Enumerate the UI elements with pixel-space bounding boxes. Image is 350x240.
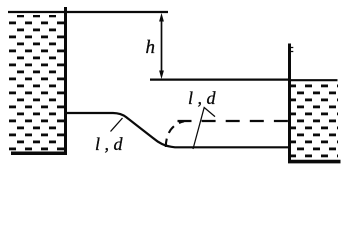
svg-text:l , d: l , d <box>95 134 124 154</box>
right reservoir bottom <box>288 160 341 164</box>
leader line for label l,d (pipe 1) <box>111 118 123 132</box>
right reservoir water surface line <box>291 79 338 81</box>
left reservoir right wall <box>64 7 67 154</box>
right wall small ticks <box>291 48 293 52</box>
right reservoir water level line (dimension bottom line) <box>150 78 288 80</box>
svg-text:l , d: l , d <box>188 88 217 108</box>
dimension h: vertical double arrow <box>159 13 164 79</box>
dashed elbow arc (alternative pipe bend) <box>166 121 184 147</box>
svg-text:h: h <box>146 37 156 58</box>
left reservoir water surface line (extends to h-dimension) <box>8 11 168 13</box>
left reservoir bottom <box>11 151 67 155</box>
right reservoir water hatching <box>291 84 338 160</box>
left reservoir water hatching <box>8 15 64 152</box>
dashed pipe axis line to right tank <box>178 120 289 122</box>
right reservoir left wall <box>288 44 291 164</box>
leader lines for label l,d (pipe 2): lambda shape <box>193 108 215 150</box>
pipe 1: from left tank, horizontal then sloped down, then bottom run to right tank <box>67 113 288 147</box>
